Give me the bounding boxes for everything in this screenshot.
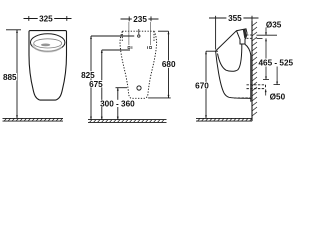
svg-text:825: 825 bbox=[81, 71, 95, 80]
svg-text:Ø35: Ø35 bbox=[266, 21, 282, 30]
svg-text:325: 325 bbox=[39, 15, 53, 24]
rear view dotted outline bbox=[120, 31, 157, 98]
front view urinal body bbox=[29, 31, 67, 101]
front view drain shadow bbox=[41, 44, 50, 47]
dimension 675 bbox=[102, 50, 130, 120]
floor line under side view bbox=[196, 118, 252, 121]
side view wall hatching bbox=[252, 22, 257, 116]
dimension Ø50 bbox=[265, 89, 267, 95]
svg-text:675: 675 bbox=[89, 80, 103, 89]
side view inlet stub dashed bbox=[247, 35, 253, 38]
floor line under front view bbox=[3, 118, 64, 121]
svg-text:355: 355 bbox=[228, 14, 242, 23]
rear view fixing hole left bbox=[128, 47, 130, 49]
dimension 355 bbox=[209, 16, 259, 50]
svg-text:235: 235 bbox=[133, 15, 147, 24]
dimension 825 bbox=[91, 36, 134, 120]
svg-text:465 - 525: 465 - 525 bbox=[258, 59, 293, 68]
rear view water inlet circle bbox=[138, 35, 140, 37]
front view rim outer ellipse bbox=[31, 34, 65, 51]
svg-text:885: 885 bbox=[3, 73, 17, 82]
front view bowl shading bbox=[33, 45, 62, 52]
dimension 465 - 525 bbox=[263, 43, 280, 85]
dimension 885 bbox=[6, 30, 21, 119]
rear view outlet circle bbox=[137, 86, 141, 90]
dimension 235 bbox=[121, 16, 159, 45]
side view wall line bbox=[251, 21, 253, 121]
svg-text:670: 670 bbox=[195, 81, 209, 90]
floor line under rear view bbox=[88, 120, 167, 123]
svg-text:Ø50: Ø50 bbox=[270, 93, 286, 102]
rear view fixing hole right bbox=[150, 47, 152, 49]
svg-text:680: 680 bbox=[162, 60, 176, 69]
dimension 670 bbox=[206, 51, 218, 118]
front view rim inner ellipse bbox=[34, 39, 62, 48]
svg-text:300 - 360: 300 - 360 bbox=[100, 99, 135, 108]
dimension Ø35 bbox=[257, 28, 278, 43]
dimension 680 bbox=[148, 31, 171, 98]
side view urinal profile bbox=[216, 29, 251, 102]
dimension 325 bbox=[24, 16, 72, 21]
side view outlet pipe dashed bbox=[234, 85, 266, 98]
rear view inlet centre tick bbox=[138, 29, 140, 34]
dimension 300 - 360 bbox=[116, 88, 128, 120]
side view spout inner shadow bbox=[243, 29, 247, 38]
